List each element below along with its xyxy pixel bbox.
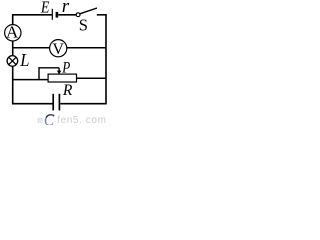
- battery E short plate: [56, 12, 59, 18]
- slider arrow P head: [57, 71, 61, 75]
- svg-text:fen5. com: fen5. com: [57, 115, 106, 125]
- lamp L circle: [7, 56, 18, 67]
- wire top-left segment: [12, 14, 52, 16]
- capacitor C left plate: [52, 94, 54, 111]
- svg-text:A: A: [6, 22, 19, 41]
- wire rheostat left: [12, 79, 48, 81]
- rheostat R box: [48, 74, 76, 82]
- lamp L cross stroke 2: [9, 57, 17, 65]
- label C dark top arc: [46, 115, 54, 118]
- switch S blade: [80, 8, 97, 14]
- wire slider horizontal: [38, 67, 59, 69]
- voltmeter V circle: [50, 40, 67, 57]
- wire right vertical: [105, 14, 107, 104]
- wire lamp to bottom: [12, 66, 14, 104]
- svg-text:V: V: [52, 41, 64, 58]
- wire bottom left segment: [12, 103, 53, 105]
- wire rheostat right: [77, 77, 106, 79]
- wire slider riser: [38, 68, 40, 80]
- wire ammeter to lamp: [12, 41, 14, 56]
- svg-text:C: C: [44, 110, 55, 125]
- svg-text:L: L: [19, 50, 29, 70]
- wire battery to switch: [58, 14, 76, 16]
- svg-text:m: m: [37, 116, 42, 125]
- capacitor C right plate: [58, 94, 60, 111]
- svg-text:S: S: [79, 15, 88, 34]
- wire voltmeter left: [12, 47, 50, 49]
- wire bottom right segment: [60, 103, 106, 105]
- wire voltmeter right: [67, 47, 106, 49]
- wire switch to top-right corner: [97, 14, 106, 16]
- svg-text:R: R: [62, 82, 73, 99]
- background: [0, 0, 108, 125]
- wire left branch upper: [12, 14, 14, 25]
- ammeter A circle: [5, 25, 21, 41]
- slider arrow P shaft: [58, 68, 60, 71]
- switch S pivot circle: [76, 13, 80, 17]
- battery E long plate: [51, 9, 53, 20]
- lamp L cross stroke 1: [9, 57, 17, 65]
- svg-text:E: E: [40, 0, 50, 17]
